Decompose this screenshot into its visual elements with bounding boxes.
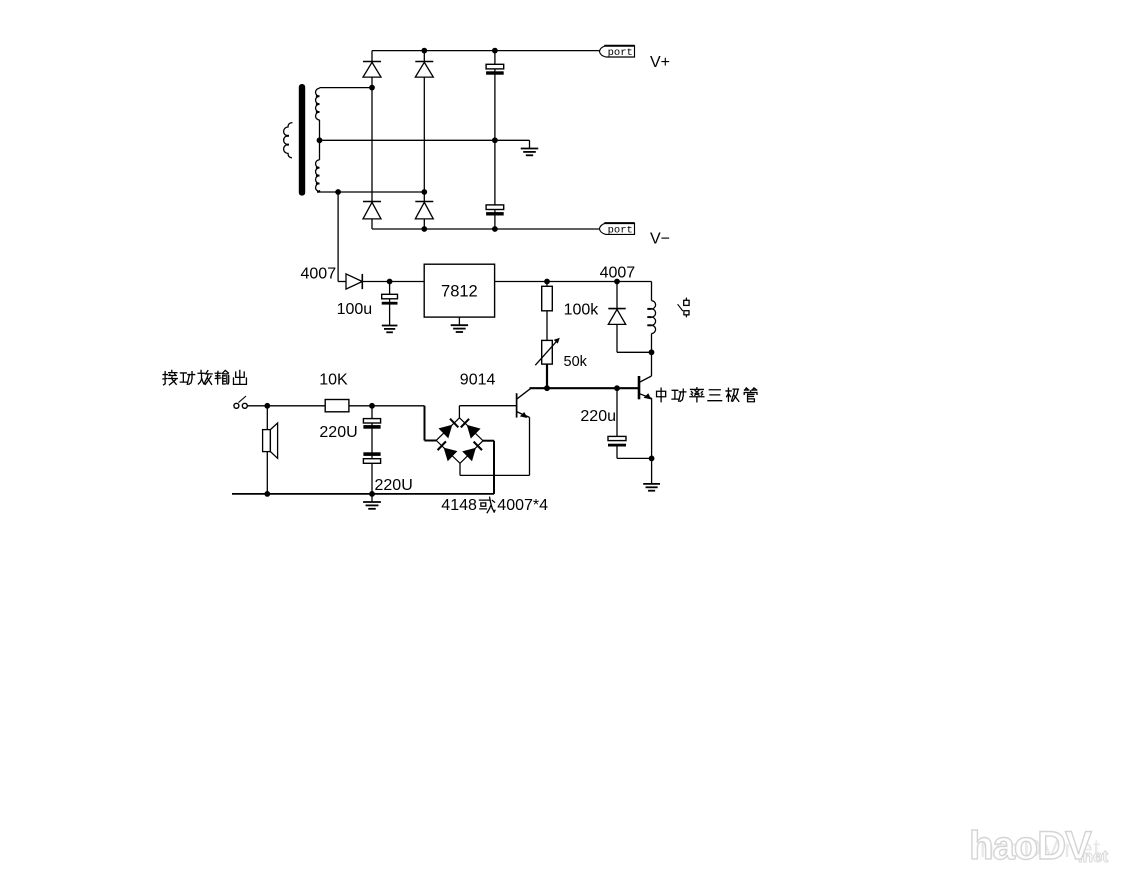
svg-text:4007*4: 4007*4 (497, 497, 548, 514)
wire 100u cap column (389, 282, 391, 326)
wire secondary bottom (317, 191, 424, 193)
svg-text:220U: 220U (319, 424, 357, 441)
transformer T1 core (299, 84, 305, 196)
capacitor C1 (V+ filter) (486, 64, 504, 69)
regulator U1 7812 box (424, 264, 494, 317)
transformer T1 primary winding (284, 123, 293, 158)
wire V- rail (372, 228, 600, 230)
transformer T1 secondary bottom winding (316, 160, 320, 192)
capacitor C6 100u (382, 294, 398, 299)
capacitor C5 220u (608, 436, 626, 440)
label zhong-gong-lv-san-ji-guan (657, 388, 666, 402)
svg-text:V−: V− (650, 231, 670, 248)
bridge diode top-left (439, 425, 453, 439)
input terminal (switch-like contact) (234, 403, 239, 408)
wire bottom ground rail (232, 493, 494, 495)
wire Q2 collector diagonal (640, 376, 652, 382)
svg-text:7812: 7812 (441, 283, 478, 301)
wire V+ rail (372, 50, 600, 52)
wire 220u cap column (616, 388, 618, 436)
ground G3 (under 7812) (458, 317, 460, 324)
diode D3 (bottom left, from V-) (363, 201, 381, 203)
svg-text:50k: 50k (564, 354, 588, 370)
wire bridge top to Q1 base (459, 405, 516, 407)
wire secondary-bottom tap down to D6 (337, 192, 339, 282)
wire input terminal to node (248, 405, 268, 407)
bridge diode top-right (467, 425, 481, 439)
wire Q2 emitter column (651, 398, 653, 483)
diode D1 (top left, to V+) (363, 61, 381, 63)
wire ground stub below 220U caps (371, 494, 373, 502)
svg-text:port: port (608, 225, 633, 237)
wire relay column top (651, 282, 653, 301)
relay coil L1 (652, 301, 656, 334)
wire D6 to 7812 input (362, 281, 424, 283)
watermark haoDV.net (969, 824, 1108, 868)
wire pot to base node (thick) (546, 364, 548, 388)
transistor Q1 emitter with arrow (517, 412, 530, 418)
resistor R2 100k (542, 286, 553, 311)
svg-text:220U: 220U (375, 477, 413, 494)
resistor R1 10K (325, 400, 349, 412)
diode D6 4007 (to 7812 input) (346, 274, 362, 289)
label jie-gong-fang-shu-chu (input from amplifier) (163, 370, 177, 384)
wire bridge right to bottom rail (483, 440, 494, 442)
wire 10K to corner (349, 405, 425, 407)
wire diode column 2 (423, 51, 425, 229)
speaker LS1 (263, 430, 271, 452)
svg-text:port: port (608, 47, 633, 59)
wire 220U caps column (371, 406, 373, 494)
transformer T1 secondary top winding (316, 88, 320, 120)
wire filter cap column (494, 51, 496, 229)
node dots (421, 48, 427, 54)
wire secondary top to D1 column (320, 87, 373, 89)
wire corner down to bridge left (424, 406, 426, 441)
wire 100k/50k column (546, 282, 548, 365)
wire Q1 emitter column (529, 417, 531, 475)
potentiometer R3 50k (542, 340, 553, 364)
wire 220u to emitter ground node (617, 457, 652, 459)
svg-text:100u: 100u (337, 301, 373, 318)
diode bridge 4148/4007x4 diamond (436, 418, 483, 464)
ground G4 (emitter of Q2) (643, 483, 660, 485)
wire diode column 1 (371, 51, 373, 229)
wire base line Q2 (thick) (547, 387, 638, 389)
svg-text:4148: 4148 (441, 497, 477, 514)
transistor Q2 emitter with arrow (640, 394, 652, 399)
capacitor C2 (V- filter) (486, 205, 504, 210)
wire secondary straight mid-section (319, 120, 321, 160)
wire center-tap to ground (320, 139, 530, 141)
svg-text:100k: 100k (564, 302, 600, 319)
ground G5 (under 220U caps) (363, 501, 381, 503)
diode D5 4007 (relay flyback) (608, 308, 625, 310)
transistor Q2 (power) bar (638, 376, 641, 399)
svg-text:220u: 220u (580, 408, 616, 425)
diode D2 (top right, to V+) (415, 61, 433, 63)
svg-text:10K: 10K (319, 372, 348, 389)
wire flyback bottom to relay node (617, 351, 652, 353)
bridge diode bottom-left (444, 448, 458, 462)
ground G2 (under 100u) (382, 325, 398, 327)
wire speaker column (266, 406, 268, 494)
diode D4 (bottom right, from V-) (415, 201, 433, 203)
bridge diode bottom-right (462, 448, 476, 462)
transformer winding ticks (316, 95, 320, 97)
port connector V+ (599, 46, 634, 57)
svg-text:V+: V+ (650, 54, 670, 71)
svg-text:4007: 4007 (301, 265, 337, 282)
port connector V- (599, 223, 634, 234)
transistor Q1 9014 bar (516, 393, 518, 417)
wire 4007 flyback column (616, 282, 618, 353)
wire node to 10K (267, 405, 325, 407)
svg-text:.net: .net (1078, 847, 1109, 866)
svg-text:haoDV: haoDV (969, 824, 1092, 868)
wire Q1 collector diagonal (517, 388, 531, 399)
capacitor C3 220U (363, 419, 380, 423)
capacitor C4 220U (reversed) (363, 452, 380, 456)
ground G1 (center tap) (521, 148, 539, 150)
svg-text:9014: 9014 (460, 372, 496, 389)
wire bridge bottom to emitter return (459, 463, 461, 475)
wire 7812 output rail (495, 281, 652, 283)
relay switch contact (685, 298, 687, 301)
wire relay column bottom (651, 334, 653, 377)
